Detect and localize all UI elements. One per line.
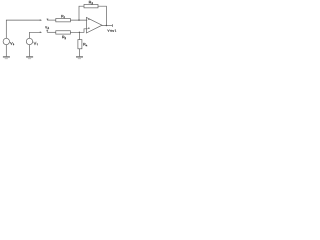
op-amp minus sign	[88, 18, 90, 20]
wire feedback loop node A up over to output node	[79, 6, 106, 25]
wire V1 source up and right	[30, 32, 41, 38]
terminal node v1 (T mark)	[47, 19, 49, 20]
ground under Vs	[5, 45, 7, 57]
op-amp U1	[86, 17, 102, 33]
output node junction dot	[106, 25, 107, 26]
label R4	[84, 43, 86, 46]
resistor R3	[56, 31, 71, 34]
op-amp plus sign	[88, 27, 90, 29]
label V1	[34, 42, 37, 45]
ground under V1	[29, 45, 31, 57]
resistor R2 feedback	[84, 5, 98, 8]
label Vs	[10, 42, 12, 45]
wire top input terminal to R1	[47, 19, 55, 21]
label R2	[89, 1, 91, 4]
resistor R1	[56, 19, 71, 22]
wire R1 to op-amp inverting input	[70, 19, 87, 21]
arrow at end of V1 wire	[40, 32, 42, 34]
wire R4 to ground	[78, 49, 80, 57]
arrow at end of Vs wire	[40, 19, 42, 21]
wire node B down to R4	[78, 32, 80, 39]
label R3	[62, 36, 64, 39]
label vout	[108, 30, 110, 32]
resistor R4 to ground	[78, 40, 82, 49]
label v2 (node)	[45, 26, 47, 28]
label R1	[62, 15, 64, 18]
node B junction dot	[79, 32, 80, 33]
voltage source V1	[26, 38, 32, 44]
ground under R4	[76, 56, 83, 58]
wire R3 to node B and jog up to non-inverting input	[70, 29, 87, 33]
output terminal tick	[111, 24, 113, 27]
voltage source Vs	[3, 38, 9, 44]
wire op-amp output	[102, 25, 112, 27]
wire bottom input terminal to R3	[47, 31, 56, 33]
wire Vs source up and right	[6, 20, 40, 38]
terminal node v2 (T mark)	[46, 30, 48, 32]
node A junction dot	[78, 19, 79, 20]
